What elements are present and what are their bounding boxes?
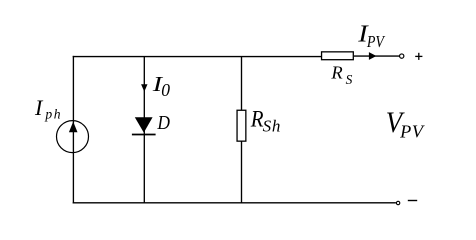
wire from Rs to positive terminal: [354, 55, 400, 57]
svg-text:ph: ph: [44, 107, 62, 122]
current source Iph circle: [57, 121, 89, 153]
wire top horizontal rail: [73, 56, 322, 58]
label Rs: [330, 63, 352, 88]
terminal negative circle: [396, 201, 399, 204]
svg-text:I: I: [34, 95, 44, 120]
svg-text:D: D: [157, 112, 171, 134]
svg-text:Sh: Sh: [263, 116, 282, 135]
current arrow I0 on diode branch: [141, 84, 147, 92]
wire left vertical branch: [72, 56, 74, 204]
label Iph: [34, 95, 62, 122]
label VPV: [386, 106, 425, 142]
resistor Rs box: [322, 52, 354, 60]
plus sign: [415, 53, 422, 60]
diode D cathode bar: [132, 134, 156, 136]
current arrow IPV right: [369, 52, 377, 60]
diode D triangle: [135, 117, 153, 132]
minus sign: [408, 200, 417, 202]
svg-text:S: S: [346, 72, 353, 87]
svg-text:0: 0: [161, 80, 170, 100]
label RSh: [250, 107, 281, 136]
svg-text:R: R: [330, 63, 343, 83]
wire bottom horizontal rail: [73, 202, 396, 204]
svg-text:R: R: [250, 107, 264, 132]
wire diode branch vertical: [143, 57, 145, 203]
current source arrow up: [69, 122, 78, 133]
svg-text:PV: PV: [366, 32, 385, 51]
terminal positive circle: [400, 54, 404, 58]
label I0: [151, 72, 170, 100]
resistor RSh box: [237, 110, 246, 141]
wire shunt branch vertical: [241, 57, 243, 203]
label IPV: [357, 21, 385, 52]
svg-text:PV: PV: [399, 122, 425, 142]
